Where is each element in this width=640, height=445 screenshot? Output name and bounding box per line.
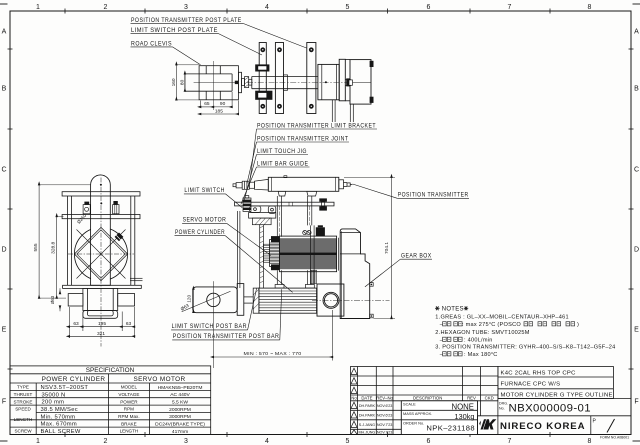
svg-text:D: D <box>1 247 6 254</box>
X diagonals <box>77 230 126 279</box>
shaft fittings left <box>242 77 252 88</box>
svg-text:LIMIT BAR GUIDE: LIMIT BAR GUIDE <box>257 160 309 167</box>
position transmitter post plate <box>307 43 316 114</box>
svg-text:6: 6 <box>427 4 431 11</box>
servo motor black connector <box>316 227 325 236</box>
svg-text:K4C 2CAL RHS TOP CPC: K4C 2CAL RHS TOP CPC <box>501 370 577 376</box>
scale / mass / order block <box>401 401 477 435</box>
limit switch bodies <box>249 206 276 218</box>
svg-text:E: E <box>2 327 7 334</box>
svg-text:NPK–231188: NPK–231188 <box>426 424 475 433</box>
svg-text:LIMIT SWITCH POST BAR: LIMIT SWITCH POST BAR <box>172 323 247 330</box>
clevis pin flange <box>238 72 241 92</box>
svg-text:ORDER No.: ORDER No. <box>403 420 424 425</box>
svg-text:BRAKE: BRAKE <box>121 421 137 426</box>
dim 321 <box>69 335 134 337</box>
svg-text:DC24V(BRAKE TYPE): DC24V(BRAKE TYPE) <box>155 422 205 428</box>
svg-text:5.5 KW: 5.5 KW <box>172 400 188 406</box>
ruler letters left <box>1 29 6 406</box>
svg-text:S.J.JANG: S.J.JANG <box>359 423 375 427</box>
ruler numbers top <box>36 4 592 11</box>
revision rows text <box>358 404 392 435</box>
svg-text:No: No <box>351 395 357 400</box>
svg-text:BALL SCREW: BALL SCREW <box>41 429 81 435</box>
svg-text:RPM: RPM <box>124 407 134 412</box>
svg-text:MOTOR CYLINDER G TYPE OUTL: MOTOR CYLINDER G TYPE OUTLINE <box>501 392 613 398</box>
transmitter left fittings <box>233 179 268 190</box>
svg-text:POWER CYLINDER: POWER CYLINDER <box>42 376 106 383</box>
svg-text:D: D <box>634 247 639 254</box>
svg-text:HMAKN55–PB20TM: HMAKN55–PB20TM <box>158 385 203 391</box>
svg-text:1: 1 <box>36 4 40 11</box>
phi63 dim left <box>59 288 61 311</box>
svg-text:SPEED: SPEED <box>15 407 31 412</box>
top frame bar 1 <box>62 192 140 196</box>
svg-text:704.1: 704.1 <box>384 242 390 254</box>
clevis centerlines <box>194 61 236 110</box>
rod clevis block <box>193 287 237 313</box>
svg-text:POSITION TRANSMITTER JOINT: POSITION TRANSMITTER JOINT <box>257 135 349 142</box>
svg-text:LIMIT SWITCH: LIMIT SWITCH <box>184 187 225 194</box>
svg-text:SPECIFICATION: SPECIFICATION <box>86 367 135 374</box>
svg-text:POSITION TRANSMITTER POST B: POSITION TRANSMITTER POST BAR <box>173 333 280 340</box>
svg-text:C: C <box>634 167 639 174</box>
black slider block <box>115 233 124 242</box>
stud + nut right <box>345 80 351 86</box>
svg-text:No.: No. <box>499 407 505 411</box>
svg-text:555: 555 <box>33 243 39 251</box>
svg-text:130kg: 130kg <box>454 412 474 421</box>
svg-text:NBX000009-01: NBX000009-01 <box>509 403 591 415</box>
svg-text:DH.PARK: DH.PARK <box>359 414 376 418</box>
svg-text:NSV3.5T–200ST: NSV3.5T–200ST <box>41 385 89 391</box>
servo motor front shaft collar (striped) <box>264 244 270 262</box>
svg-text:SCREW: SCREW <box>14 429 32 434</box>
bracket connector lines <box>345 60 350 101</box>
svg-text:2000RPM: 2000RPM <box>169 407 191 413</box>
svg-text:A: A <box>634 29 639 36</box>
clevis diagonal centerline <box>182 291 231 312</box>
circle centerlines (dash-dot) <box>68 178 134 347</box>
svg-text:THRUST: THRUST <box>14 392 33 397</box>
servo motor front cap <box>270 236 280 270</box>
svg-text:3: 3 <box>184 4 188 11</box>
plate bolt holes <box>260 47 313 108</box>
svg-text:FURNACE CPC W/S: FURNACE CPC W/S <box>501 382 561 388</box>
DRG no row <box>499 402 508 411</box>
bracket corner tabs <box>370 61 374 67</box>
svg-text:7: 7 <box>508 438 512 445</box>
notes header stars <box>435 306 468 310</box>
hangul placeholder boxes (line 6) <box>443 352 463 356</box>
motor rear support ribs <box>311 270 317 283</box>
ruler zone ticks top/bottom <box>65 9 550 438</box>
limit switch post plate 2 <box>275 43 283 114</box>
svg-text:5: 5 <box>346 4 350 11</box>
svg-text:: 400L/min: : 400L/min <box>464 338 493 344</box>
svg-text:MODEL: MODEL <box>121 385 138 390</box>
svg-text:POSITION TRANSMITTER: POSITION TRANSMITTER <box>398 192 469 199</box>
road clevis body (top view) <box>185 66 239 100</box>
ruler numbers bottom <box>36 438 592 445</box>
limit switch post plate 1 <box>259 43 266 114</box>
gear box outline <box>340 229 370 319</box>
nireco korea NK monogram <box>479 419 496 429</box>
center rod with dome top (occludes circle) <box>91 175 111 285</box>
limit bracket flange <box>339 59 345 101</box>
svg-text:3000RPM: 3000RPM <box>169 414 191 420</box>
rod flange <box>237 284 244 316</box>
position transmitter limit bracket plate <box>350 60 371 105</box>
svg-text:AC 440V: AC 440V <box>170 392 190 398</box>
svg-text:328.8: 328.8 <box>51 241 57 253</box>
svg-text:REV: REV <box>467 395 476 400</box>
svg-text:POWER CYLINDER: POWER CYLINDER <box>175 229 225 236</box>
limit bar guide block (hatched) <box>252 218 271 225</box>
clevis centerline vertical <box>212 281 214 368</box>
svg-text:NIRECO KOREA: NIRECO KOREA <box>500 421 585 432</box>
limit switch blocks (top view, dark) <box>255 64 272 99</box>
svg-text:65: 65 <box>204 101 210 107</box>
top frame bar 2 <box>62 215 140 219</box>
main shaft (top view) <box>252 75 318 90</box>
shaft centerline <box>247 82 350 84</box>
svg-text:LENGTH: LENGTH <box>14 417 33 422</box>
svg-text:185: 185 <box>215 108 223 114</box>
svg-text:NOV.7'23: NOV.7'23 <box>377 431 393 435</box>
svg-text:2.HEXAGON TUBE: SMVT10025M: 2.HEXAGON TUBE: SMVT10025M <box>435 330 529 336</box>
cylinder rod gland (hatched) <box>253 288 259 313</box>
svg-text:SERVO MOTOR: SERVO MOTOR <box>133 376 185 383</box>
transmitter right end cap + nipple <box>339 180 353 189</box>
dim 65 / 90 <box>201 92 232 108</box>
svg-text:8: 8 <box>588 438 592 445</box>
svg-text:FORM NO.A0B001: FORM NO.A0B001 <box>600 435 629 439</box>
svg-text:417mm: 417mm <box>172 429 188 435</box>
hangul placeholder boxes (line 2) <box>443 322 575 326</box>
svg-text:1: 1 <box>36 438 40 445</box>
power cylinder tube <box>259 288 317 313</box>
ruler letters right <box>634 29 639 406</box>
svg-text:NONE: NONE <box>451 402 474 411</box>
svg-text:63: 63 <box>126 321 132 327</box>
svg-text:POSITION TRANSMITTER LIMIT: POSITION TRANSMITTER LIMIT BRACKET <box>257 122 376 129</box>
dims 63 / 195 / 63 <box>69 307 134 338</box>
piston rod <box>244 297 253 303</box>
svg-text:200 mm: 200 mm <box>42 400 65 406</box>
dim MIN 570 MAX 770 <box>213 310 332 361</box>
svg-text:SCALE: SCALE <box>403 401 416 406</box>
svg-text:NOV.6'23: NOV.6'23 <box>377 404 393 408</box>
dim 704.1 <box>344 177 395 318</box>
svg-text:B: B <box>2 86 7 93</box>
svg-text:2: 2 <box>104 438 108 445</box>
svg-text:LIMIT SWITCH POST PLATE: LIMIT SWITCH POST PLATE <box>131 27 218 34</box>
svg-text:195: 195 <box>98 321 106 327</box>
gear box bolt tabs <box>370 283 374 318</box>
dim 328.8 <box>57 217 64 299</box>
svg-text:SERVO MOTOR: SERVO MOTOR <box>183 217 227 224</box>
bracket left bolt <box>349 80 352 85</box>
svg-text:90: 90 <box>220 101 226 107</box>
svg-text:5: 5 <box>346 438 350 445</box>
black pin bolt <box>235 81 239 84</box>
dim 185 <box>201 101 239 116</box>
inscribed diamond (double line) <box>74 227 127 280</box>
svg-text:NOV.7'23: NOV.7'23 <box>377 423 393 427</box>
svg-text:4: 4 <box>265 4 269 11</box>
limit touch jig knob (spool) <box>319 198 327 210</box>
frame posts <box>68 196 135 285</box>
svg-text:LIMIT TOUCH JIG: LIMIT TOUCH JIG <box>257 148 307 155</box>
svg-text:1.GREAS : GL–XX–MOBIL–CENTAUR–: 1.GREAS : GL–XX–MOBIL–CENTAUR–XHP–461 <box>435 314 569 320</box>
svg-text:8: 8 <box>588 4 592 11</box>
revision triangles <box>351 368 357 434</box>
svg-text:LENGTH: LENGTH <box>120 429 139 434</box>
svg-text:CKD: CKD <box>485 395 494 400</box>
logo row <box>478 416 615 435</box>
svg-text:2: 2 <box>104 4 108 11</box>
svg-text:Ø63: Ø63 <box>50 295 55 304</box>
svg-text:STROKE: STROKE <box>14 399 33 404</box>
lead screw rod (hatched) <box>260 225 264 288</box>
svg-text:TYPE: TYPE <box>17 385 29 390</box>
svg-text:3: 3 <box>184 438 188 445</box>
svg-text:6: 6 <box>427 438 431 445</box>
dim 120 vertical at block edge <box>192 289 194 312</box>
limit switch actuator (striped) <box>243 196 251 212</box>
svg-text:POWER: POWER <box>120 399 138 404</box>
svg-text:POSITION TRANSMITTER POST P: POSITION TRANSMITTER POST PLATE <box>131 17 242 24</box>
left post rod <box>237 211 240 288</box>
trunnion pins <box>68 294 134 306</box>
ruler zone ticks left/right <box>8 49 634 369</box>
svg-text:C: C <box>1 167 6 174</box>
svg-text:7: 7 <box>508 4 512 11</box>
svg-text:MH.JUNG: MH.JUNG <box>358 431 375 435</box>
svg-text:Min. 570mm: Min. 570mm <box>41 414 76 420</box>
bottom frame bar <box>63 285 142 288</box>
svg-text:Max. 670mm: Max. 670mm <box>41 422 78 428</box>
dim 160 <box>176 65 199 100</box>
post bar B <box>308 196 312 285</box>
svg-text:B: B <box>634 86 639 93</box>
svg-text:REV–No: REV–No <box>376 395 393 400</box>
svg-text:DH.PARK: DH.PARK <box>359 404 376 408</box>
hangul placeholder boxes (line 4) <box>443 337 463 341</box>
svg-text:: max 275°C (POSCO: : max 275°C (POSCO <box>462 322 521 328</box>
bearing centerline horizontal <box>312 299 390 301</box>
svg-text:321: 321 <box>97 331 105 337</box>
drawing title rows <box>478 367 632 416</box>
big circle (drawn behind rod) <box>74 227 127 280</box>
top frame bar <box>235 202 334 206</box>
svg-text:MASS APPROX.: MASS APPROX. <box>403 411 432 416</box>
bearing housing block <box>317 284 344 316</box>
svg-text:NOV.6'23: NOV.6'23 <box>377 414 393 418</box>
svg-text:RPM Max.: RPM Max. <box>118 414 139 419</box>
svg-text:80: 80 <box>179 79 185 85</box>
svg-text:): ) <box>577 322 579 328</box>
svg-text:MIN : 570 ~ MAX : 770: MIN : 570 ~ MAX : 770 <box>244 351 302 357</box>
svg-text:NOTES: NOTES <box>442 307 464 313</box>
motor/gearbox coupling ring <box>337 238 339 271</box>
revision table <box>351 367 498 435</box>
spec table text <box>42 367 186 383</box>
svg-text:4: 4 <box>265 438 269 445</box>
svg-text:: Max 180°C: : Max 180°C <box>464 352 498 358</box>
bar2 mounted switches (side view) <box>83 205 119 214</box>
svg-text:F: F <box>2 399 6 406</box>
revision table header text <box>351 395 493 400</box>
post bar B over motor <box>310 225 314 284</box>
svg-text:GEAR BOX: GEAR BOX <box>401 253 432 260</box>
position transmitter tube <box>268 177 339 191</box>
svg-text:DATE: DATE <box>361 395 372 400</box>
svg-text:63: 63 <box>73 321 79 327</box>
dim 80 <box>184 74 186 91</box>
svg-text:38.5 MM/Sec: 38.5 MM/Sec <box>41 407 78 413</box>
svg-text:A: A <box>2 29 7 36</box>
hanger rods below <box>332 100 353 122</box>
svg-text:DRG.: DRG. <box>499 402 508 406</box>
transmitter filler cap <box>284 176 287 178</box>
servo motor ribbed body (horizontal fins) <box>280 236 337 272</box>
svg-text:F: F <box>634 399 638 406</box>
svg-text:DESCRIPTION: DESCRIPTION <box>413 395 442 400</box>
svg-text:3. POSITION TRANSMITTER: GYHR–: 3. POSITION TRANSMITTER: GYHR–400–S/S–K8… <box>435 345 615 351</box>
post bar A <box>277 196 281 285</box>
pin side lines <box>130 278 143 280</box>
servo motor connector circles <box>303 231 311 235</box>
svg-text:35000 N: 35000 N <box>42 392 66 398</box>
svg-text:160: 160 <box>171 78 177 86</box>
base block <box>83 288 118 318</box>
transmitter joint block <box>318 64 339 99</box>
svg-text:VOLTAGE: VOLTAGE <box>118 392 139 397</box>
dim 555 <box>39 185 99 298</box>
transmitter mounting feet <box>278 191 317 196</box>
svg-text:120: 120 <box>187 295 192 303</box>
svg-text:E: E <box>634 327 639 334</box>
svg-text:ROAD CLEVIS: ROAD CLEVIS <box>131 40 172 47</box>
